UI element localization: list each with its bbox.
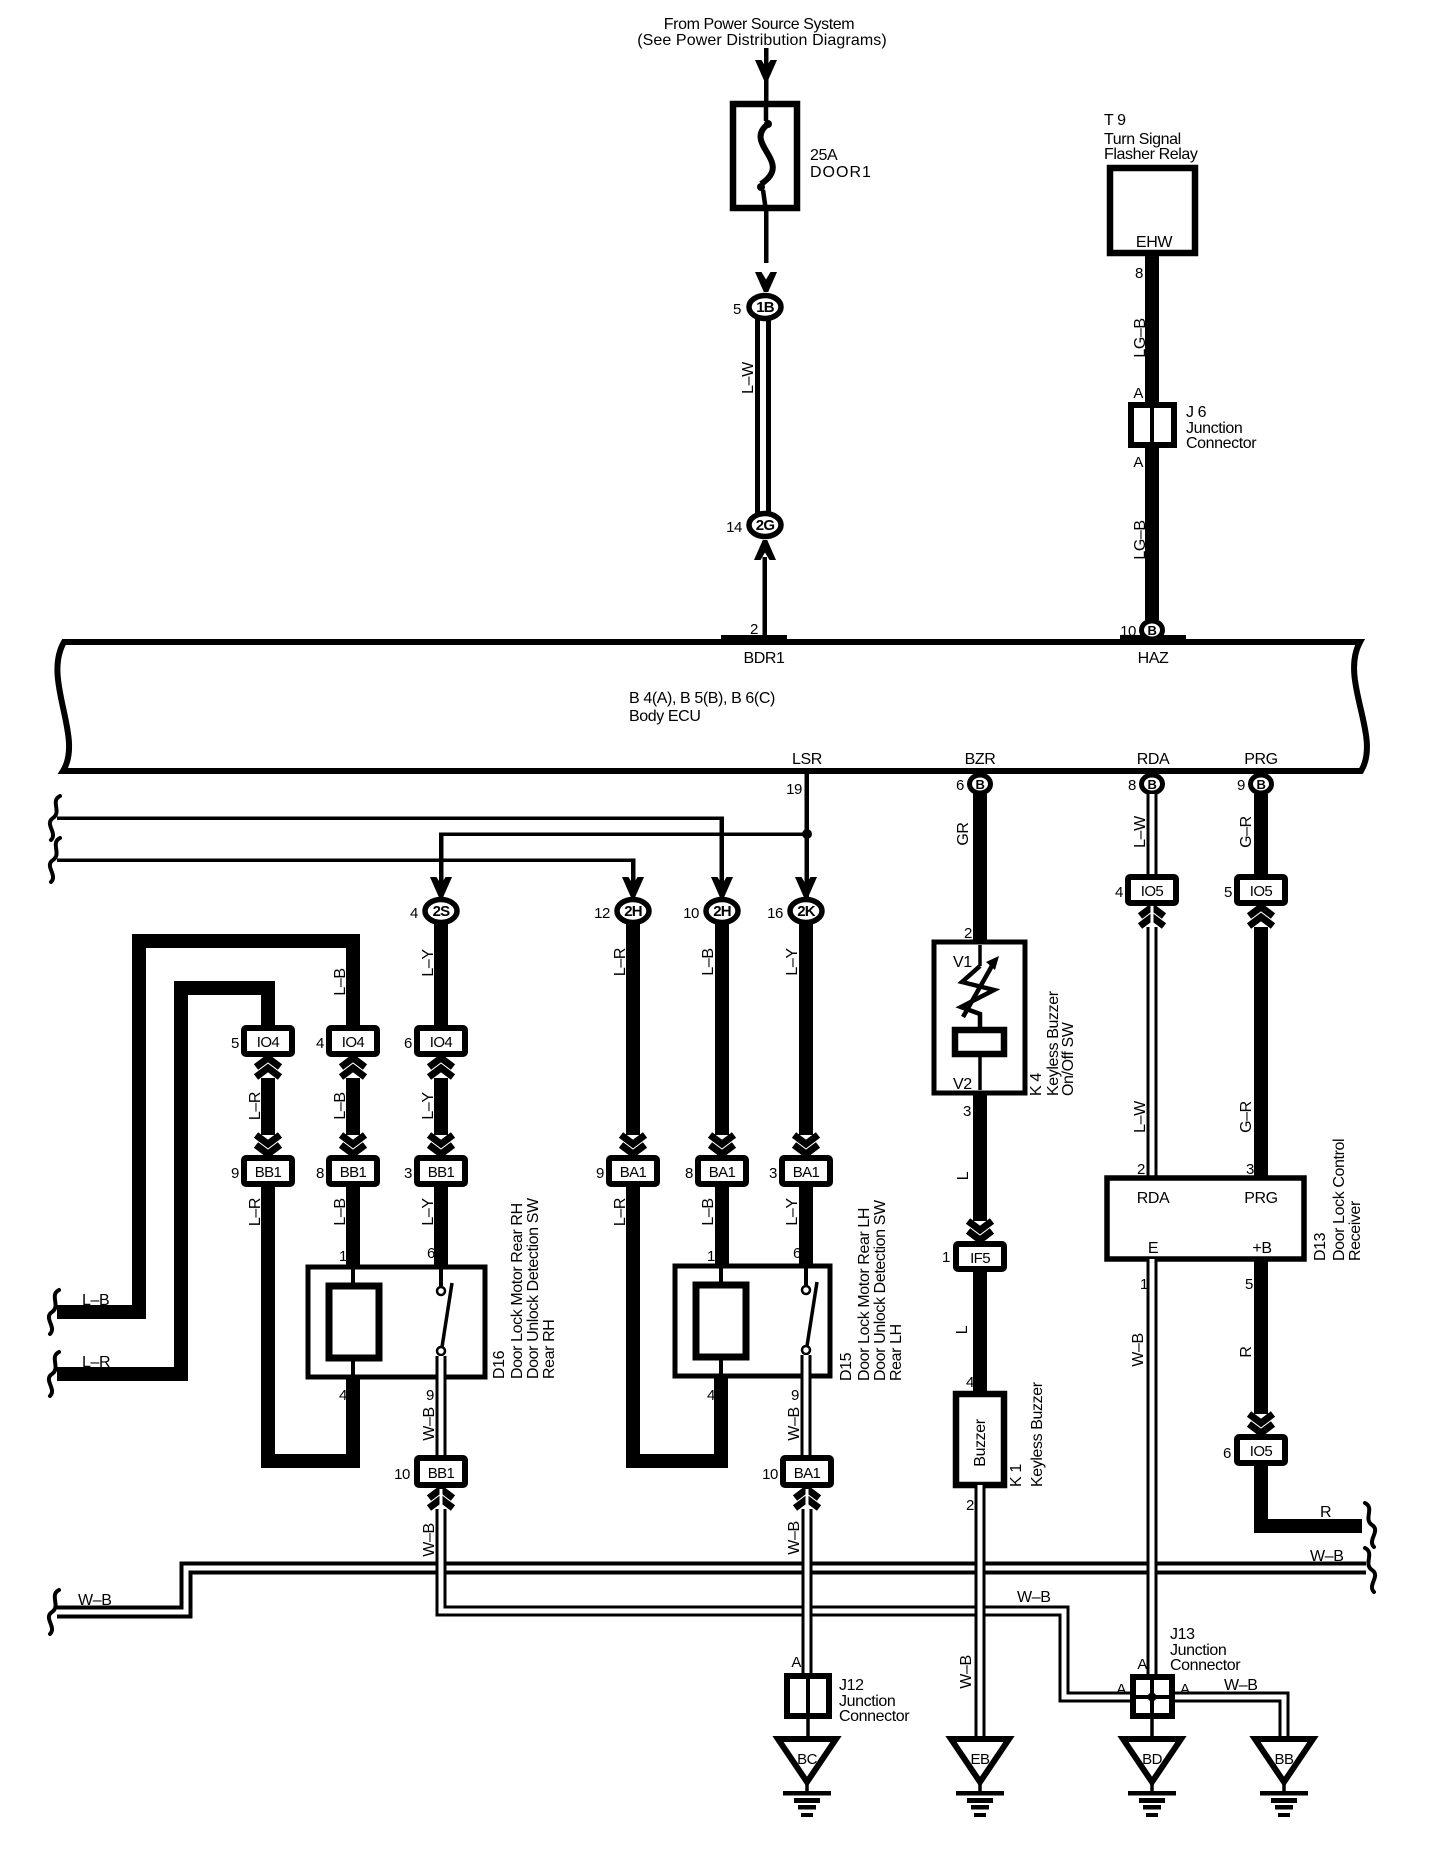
junction connector J13 [1130, 1674, 1175, 1719]
svg-text:BZR: BZR [965, 751, 996, 768]
svg-text:L–R: L–R [247, 1198, 264, 1226]
svg-text:10: 10 [1120, 623, 1136, 640]
svg-text:RDA: RDA [1137, 751, 1170, 768]
svg-text:BB1: BB1 [255, 1164, 282, 1181]
svg-text:D16: D16 [491, 1350, 508, 1379]
svg-text:E: E [1148, 1240, 1158, 1257]
svg-text:L–W: L–W [1132, 815, 1149, 848]
svg-text:L–Y: L–Y [420, 949, 437, 977]
connector 10(BA1) [762, 1458, 831, 1485]
wire L-W from RDA to IO5(4) [1132, 794, 1152, 877]
arrow up into BA1(10) [795, 1489, 819, 1508]
arrows down into BB1 row [256, 1135, 453, 1154]
svg-text:Rear LH: Rear LH [888, 1324, 905, 1381]
wire from power source into fuse [764, 48, 769, 103]
svg-text:A: A [1133, 454, 1143, 471]
svg-text:10: 10 [762, 1466, 778, 1483]
wire L-R from BB1(9) looping to D16 pin 4 [247, 1184, 353, 1461]
svg-text:T 9: T 9 [1104, 112, 1126, 129]
break symbol right of R wire [1365, 1503, 1375, 1547]
break symbol at L-B stub [49, 1290, 59, 1334]
arrow up into 2G [754, 540, 776, 560]
connector 10(BB1) [394, 1458, 465, 1485]
svg-text:L–Y: L–Y [784, 1198, 801, 1226]
svg-text:6: 6 [793, 1245, 801, 1262]
svg-text:LG–B: LG–B [1132, 520, 1149, 559]
J12 label [839, 1677, 910, 1725]
wire L-R from 2H(12) to BA1(9) [612, 924, 640, 1135]
svg-text:B 4(A), B 5(B), B 6(C): B 4(A), B 5(B), B 6(C) [629, 690, 775, 707]
svg-text:8: 8 [685, 1165, 693, 1182]
svg-text:J 6: J 6 [1186, 404, 1207, 421]
svg-text:10: 10 [683, 905, 699, 922]
svg-text:IO5: IO5 [1250, 1443, 1273, 1460]
svg-text:PRG: PRG [1244, 751, 1277, 768]
connector 14(2G) [726, 514, 781, 537]
svg-text:14: 14 [726, 519, 742, 536]
arrow into 2H(12) [622, 877, 644, 897]
relay T 9 Turn Signal Flasher Relay box [1110, 168, 1195, 253]
svg-text:Body ECU: Body ECU [629, 708, 701, 725]
svg-text:LG–B: LG–B [1132, 318, 1149, 357]
svg-text:L–B: L–B [700, 948, 717, 975]
svg-text:W–B: W–B [786, 1407, 803, 1440]
svg-text:J12: J12 [839, 1677, 864, 1694]
svg-text:8: 8 [1128, 777, 1136, 794]
svg-text:V1: V1 [953, 954, 972, 971]
svg-text:IO5: IO5 [1141, 883, 1164, 900]
svg-text:K 4: K 4 [1028, 1073, 1045, 1096]
svg-text:BB1: BB1 [340, 1164, 367, 1181]
svg-text:Door Lock Motor Rear RH: Door Lock Motor Rear RH [509, 1203, 526, 1379]
connector 6(IO5) [1223, 1437, 1285, 1463]
svg-text:8: 8 [316, 1165, 324, 1182]
wire W-B from D16 pin 9 to BB1(10) [421, 1356, 441, 1458]
svg-text:9: 9 [426, 1387, 434, 1404]
svg-text:DOOR1: DOOR1 [810, 164, 872, 181]
svg-text:L–W: L–W [1132, 1100, 1149, 1133]
svg-text:2: 2 [964, 925, 972, 942]
svg-text:1: 1 [942, 1249, 950, 1266]
svg-text:Connector: Connector [839, 1708, 910, 1725]
svg-text:Buzzer: Buzzer [972, 1418, 989, 1466]
svg-text:4: 4 [707, 1387, 715, 1404]
arrow up into IO5(5) [1249, 907, 1273, 926]
svg-text:W–B: W–B [958, 1655, 975, 1688]
wire L-B from 2H(10) to BA1(8) [700, 924, 729, 1135]
ground BD [1123, 1739, 1181, 1817]
svg-text:D13: D13 [1312, 1232, 1329, 1261]
svg-text:L–B: L–B [332, 1198, 349, 1225]
svg-text:19: 19 [786, 781, 802, 798]
svg-text:A: A [1116, 1681, 1126, 1698]
break symbol left of feeder 2 [50, 838, 60, 882]
wire L-B between IO4(4) and BB1(8) [332, 1078, 360, 1135]
connector 6(IO4) [404, 1028, 465, 1054]
svg-text:BA1: BA1 [620, 1164, 647, 1181]
svg-text:PRG: PRG [1244, 1190, 1277, 1207]
break symbol at left W-B bus [49, 1590, 59, 1634]
svg-text:L–W: L–W [740, 361, 757, 394]
junction connector J6 [1131, 402, 1174, 448]
svg-text:L: L [954, 1325, 971, 1334]
door lock motor rear LH D15 box [675, 1266, 830, 1376]
connector 5(1B) [733, 296, 781, 319]
fuse 25A DOOR1 [733, 101, 797, 211]
wire W-B from buzzer to ground EB [958, 1485, 980, 1739]
wire W-B from BB1(10) joining ground bus [441, 1509, 1132, 1697]
connector 9(BA1) [596, 1158, 657, 1184]
svg-text:Connector: Connector [1186, 435, 1257, 452]
svg-text:W–B: W–B [421, 1523, 438, 1556]
wire W-B from BA1(10) down to J12 [802, 1509, 813, 1673]
arrow into 2S [430, 877, 452, 897]
svg-text:BA1: BA1 [794, 1465, 821, 1482]
junction connector J12 [787, 1673, 829, 1719]
K1 label rotated [1008, 1381, 1046, 1487]
wire G-R from PRG to IO5(5) [1238, 794, 1268, 877]
svg-text:EHW: EHW [1136, 234, 1173, 251]
svg-text:W–B: W–B [421, 1407, 438, 1440]
svg-text:On/Off SW: On/Off SW [1060, 1021, 1077, 1096]
connector 6(B) at BZR [956, 775, 990, 794]
svg-text:4: 4 [410, 905, 418, 922]
wire L from IF5 to buzzer [954, 1269, 987, 1394]
node junction on LSR wire [802, 829, 812, 839]
svg-text:Rear RH: Rear RH [541, 1320, 558, 1379]
svg-text:Connector: Connector [1170, 1657, 1241, 1674]
svg-text:9: 9 [231, 1165, 239, 1182]
wire L-Y from 2K to BA1(3) [784, 924, 813, 1135]
svg-text:1: 1 [339, 1248, 347, 1265]
svg-text:2G: 2G [756, 517, 775, 534]
connector 9(BB1) [231, 1158, 292, 1184]
svg-text:BB: BB [1274, 1751, 1294, 1768]
wire R from D13 +B to IO5(6) [1238, 1259, 1268, 1414]
connector 12(2H) [594, 900, 649, 923]
arrow into 2H(10) [711, 877, 733, 897]
arrow up into BB1(10) [429, 1489, 453, 1508]
svg-text:IO5: IO5 [1250, 883, 1273, 900]
relay T9 heading [1104, 112, 1198, 163]
svg-text:9: 9 [791, 1387, 799, 1404]
svg-text:R: R [1238, 1346, 1255, 1357]
connector 5(IO4) [231, 1028, 292, 1054]
svg-text:2: 2 [966, 1497, 974, 1514]
arrows down into BA1 row [621, 1135, 818, 1154]
arrow down into IO5(6) [1249, 1414, 1273, 1433]
svg-text:Receiver: Receiver [1347, 1200, 1364, 1261]
wire W-B from J13 right to ground BB [1173, 1677, 1284, 1739]
svg-text:W–B: W–B [1310, 1548, 1343, 1565]
svg-text:G–R: G–R [1238, 816, 1255, 848]
svg-text:D15: D15 [838, 1352, 855, 1381]
svg-text:HAZ: HAZ [1138, 650, 1169, 667]
svg-text:9: 9 [1237, 777, 1245, 794]
wire L-Y from 2S to IO4(6) [420, 924, 448, 1030]
svg-text:From Power Source System: From Power Source System [664, 16, 855, 33]
connector 8(B) at RDA [1128, 775, 1162, 794]
svg-text:J13: J13 [1170, 1626, 1195, 1643]
svg-text:W–B: W–B [786, 1521, 803, 1554]
ground BC [778, 1739, 836, 1817]
svg-text:3: 3 [404, 1165, 412, 1182]
svg-text:L–R: L–R [247, 1092, 264, 1120]
svg-text:4: 4 [316, 1035, 324, 1052]
Body ECU band B4(A) B5(B) B6(C) [57, 635, 1367, 771]
svg-text:16: 16 [767, 905, 783, 922]
svg-text:L: L [955, 1171, 972, 1180]
connector 8(BA1) [685, 1158, 746, 1184]
svg-text:W–B: W–B [1017, 1589, 1050, 1606]
arrow down into IF5 [968, 1221, 992, 1240]
break symbol at L-R stub [49, 1352, 59, 1396]
svg-text:G–R: G–R [1238, 1101, 1255, 1133]
svg-text:B: B [1257, 777, 1266, 792]
svg-text:B: B [976, 777, 985, 792]
wire L-B from BB1(8) to D16 pin 1 [332, 1184, 360, 1267]
svg-text:6: 6 [1223, 1445, 1231, 1462]
svg-text:B: B [1148, 777, 1157, 792]
svg-text:4: 4 [1115, 884, 1123, 901]
arrow up into IO5(4) [1140, 907, 1164, 926]
svg-text:(See Power Distribution Diagra: (See Power Distribution Diagrams) [637, 32, 887, 49]
svg-text:4: 4 [339, 1387, 347, 1404]
svg-text:12: 12 [594, 905, 610, 922]
wire L-B from BA1(8) to D15 pin 1 [700, 1184, 729, 1266]
svg-text:BC: BC [797, 1751, 818, 1768]
wire W-B from D13 E to J13 [1130, 1259, 1152, 1674]
header note: power source [637, 16, 887, 49]
svg-text:L–Y: L–Y [420, 1092, 437, 1120]
keyless buzzer on/off SW K4 box [934, 942, 1025, 1093]
svg-text:W–B: W–B [1130, 1333, 1147, 1366]
J13 label [1170, 1626, 1241, 1674]
keyless buzzer K1 box [956, 1394, 1004, 1485]
wire LG-B from relay to J6 [1132, 256, 1159, 402]
svg-text:R: R [1320, 1504, 1331, 1521]
wire feeder 1 from left break to 2H(10) [57, 817, 724, 898]
wire R from IO5(6) to right break [1261, 1463, 1362, 1526]
wire LSR from ECU down [805, 774, 810, 897]
break symbol left of feeder 1 [50, 796, 60, 840]
D16 label rotated [491, 1197, 558, 1379]
svg-text:5: 5 [1224, 884, 1232, 901]
svg-text:Keyless Buzzer: Keyless Buzzer [1029, 1381, 1046, 1487]
svg-text:L–B: L–B [700, 1198, 717, 1225]
connector 10(B) at HAZ [1120, 621, 1162, 640]
svg-text:6: 6 [427, 1245, 435, 1262]
svg-text:Door Lock Motor Rear LH: Door Lock Motor Rear LH [856, 1208, 873, 1381]
svg-text:B: B [1148, 623, 1157, 638]
svg-text:IF5: IF5 [970, 1250, 990, 1267]
svg-text:L–Y: L–Y [784, 948, 801, 976]
break symbol right of W-B bus [1365, 1548, 1375, 1592]
connector 10(2H) [683, 900, 738, 923]
J6 label [1186, 404, 1257, 452]
K4 label rotated [1028, 990, 1077, 1096]
wire L-R loop from left to IO4(5) [57, 988, 268, 1374]
wire feeder 2 from left break to 2H(12) [57, 859, 636, 898]
svg-text:IO4: IO4 [430, 1034, 453, 1051]
svg-text:6: 6 [956, 777, 964, 794]
svg-text:L–R: L–R [612, 948, 629, 976]
svg-text:2K: 2K [797, 903, 816, 920]
svg-text:A: A [1137, 1656, 1147, 1673]
wire GR from BZR to K4 [955, 794, 987, 943]
svg-text:Door Lock Control: Door Lock Control [1331, 1139, 1348, 1261]
ground BB [1255, 1739, 1313, 1817]
connector 4(IO4) [316, 1028, 377, 1054]
fuse value label 25A DOOR1 [810, 147, 872, 181]
wire G-R from IO5(5) to D13 PRG [1238, 927, 1268, 1178]
svg-text:2H: 2H [624, 903, 642, 920]
svg-text:4: 4 [966, 1374, 974, 1391]
wire 2G to Body ECU pin 2 [750, 557, 767, 640]
arrow into fuse DOOR1 [755, 60, 777, 80]
svg-text:LSR: LSR [792, 751, 822, 768]
svg-text:3: 3 [769, 1165, 777, 1182]
wire L-R from BA1(9) looping to D15 pin 4 [612, 1184, 721, 1461]
wire branch LSR to 2S [439, 833, 807, 898]
svg-text:1B: 1B [756, 299, 775, 316]
svg-text:2H: 2H [713, 903, 731, 920]
svg-text:RDA: RDA [1137, 1190, 1170, 1207]
svg-text:GR: GR [955, 822, 972, 845]
wire L from K4 to IF5 [955, 1093, 987, 1221]
wire L-W from IO5(4) to D13 RDA [1147, 927, 1158, 1178]
wire L-Y from BB1(3) to D16 pin 6 [420, 1184, 448, 1267]
wire fuse to connector 1B [764, 211, 769, 263]
svg-text:L–Y: L–Y [420, 1198, 437, 1226]
svg-text:BB1: BB1 [428, 1465, 455, 1482]
arrow into 2K [795, 877, 817, 897]
svg-text:3: 3 [963, 1103, 971, 1120]
connector 9(B) at PRG [1237, 775, 1271, 794]
connector 1(IF5) [942, 1244, 1004, 1269]
arrows up into IO4 row [256, 1058, 453, 1077]
connector 4(2S) [410, 900, 457, 923]
svg-text:Flasher Relay: Flasher Relay [1104, 146, 1198, 163]
svg-text:BD: BD [1142, 1751, 1163, 1768]
connector 8(BB1) [316, 1158, 377, 1184]
svg-text:A: A [791, 1654, 801, 1671]
svg-text:A: A [1133, 385, 1143, 402]
connector 4(IO5) [1115, 877, 1176, 903]
ground bus W-B from left break stepping up and running right [57, 1568, 1366, 1612]
svg-text:10: 10 [394, 1466, 410, 1483]
svg-text:BA1: BA1 [793, 1164, 820, 1181]
wire L-B loop from left to IO4(4) [57, 941, 353, 1312]
svg-text:9: 9 [596, 1165, 604, 1182]
svg-text:EB: EB [970, 1751, 990, 1768]
D13 label rotated [1312, 1139, 1364, 1261]
svg-text:1: 1 [707, 1248, 715, 1265]
wire L-Y from BA1(3) to D15 pin 6 [784, 1184, 813, 1266]
svg-text:L–R: L–R [612, 1198, 629, 1226]
svg-text:L–B: L–B [332, 968, 349, 995]
svg-text:5: 5 [1245, 1276, 1253, 1293]
wire L-Y between IO4(6) and BB1(3) [420, 1078, 448, 1135]
svg-text:IO4: IO4 [257, 1034, 280, 1051]
svg-text:25A: 25A [810, 147, 838, 164]
connector 5(IO5) [1224, 877, 1285, 903]
wire L-R between IO4(5) and BB1(9) [247, 1078, 275, 1135]
svg-text:IO4: IO4 [342, 1034, 365, 1051]
svg-text:2S: 2S [433, 903, 451, 920]
svg-text:5: 5 [733, 301, 741, 318]
svg-text:BDR1: BDR1 [743, 650, 785, 667]
svg-text:6: 6 [404, 1035, 412, 1052]
svg-text:BB1: BB1 [428, 1164, 455, 1181]
svg-text:BA1: BA1 [709, 1164, 736, 1181]
svg-text:W–B: W–B [1224, 1677, 1257, 1694]
ground EB [951, 1739, 1009, 1817]
ECU labels [629, 650, 1278, 768]
connector 3(BA1) [769, 1158, 830, 1184]
svg-text:K 1: K 1 [1008, 1464, 1025, 1487]
svg-text:Door Unlock Detection SW: Door Unlock Detection SW [872, 1199, 889, 1381]
svg-text:V2: V2 [953, 1076, 972, 1093]
svg-text:L–B: L–B [332, 1092, 349, 1119]
svg-text:+B: +B [1252, 1240, 1271, 1257]
wire L-W from 1B to 2G (double line) [740, 310, 771, 513]
arrow into connector 1B [755, 272, 777, 292]
connector 3(BB1) [404, 1158, 465, 1184]
svg-text:5: 5 [231, 1035, 239, 1052]
door lock motor rear RH D16 box [308, 1267, 485, 1377]
wire LG-B from J6 to HAZ [1132, 448, 1159, 620]
D15 label rotated [838, 1199, 905, 1381]
svg-text:8: 8 [1135, 265, 1143, 282]
wire J12 to ground BC [806, 1719, 810, 1740]
svg-text:Door Unlock Detection SW: Door Unlock Detection SW [525, 1197, 542, 1379]
door lock control receiver D13 box [1107, 1178, 1304, 1259]
wire J13 to ground BD [1150, 1719, 1154, 1740]
connector 16(2K) [767, 900, 822, 923]
wire W-B from D15 pin 9 to BA1(10) [786, 1355, 806, 1458]
